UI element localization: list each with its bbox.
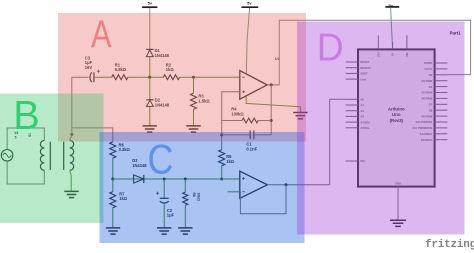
ground transformer secondary xyxy=(64,191,78,197)
label D3 1N4148 xyxy=(132,158,147,168)
resistor R7 1k xyxy=(110,179,116,228)
label C1 0.1nF xyxy=(246,142,257,152)
label U1 xyxy=(275,56,281,61)
node transformer/C3 junction xyxy=(70,133,73,136)
region overlay B xyxy=(0,92,104,223)
node R3 tap xyxy=(192,76,195,79)
ground C2 xyxy=(157,228,171,234)
resistor R1 6.8k xyxy=(112,75,128,80)
wire C3 down to transformer xyxy=(72,77,89,134)
ground Arduino xyxy=(390,220,406,226)
pin N/C xyxy=(346,159,365,163)
pin D1/TX xyxy=(425,67,448,71)
pin A1 xyxy=(346,103,365,107)
svg-text:fritzing: fritzing xyxy=(425,239,474,251)
label R2 1k xyxy=(166,63,175,73)
pin A4/SDA xyxy=(346,120,371,124)
label V4 5 xyxy=(14,131,18,140)
diode D2 1N4148 xyxy=(146,77,153,106)
ground D2 xyxy=(143,126,157,132)
label R5 1k xyxy=(226,154,235,164)
pin D4 xyxy=(429,85,448,89)
node feedback left xyxy=(220,133,223,136)
wire primary loop bottom xyxy=(7,161,44,184)
pin GND xyxy=(395,181,401,220)
wire U1 non-inverting / feedback left xyxy=(222,92,240,150)
wire U1 output to Part1 xyxy=(279,20,470,85)
pin D9 PWM xyxy=(421,114,447,118)
ground R7 xyxy=(106,228,120,234)
node U1 output xyxy=(270,83,273,86)
pin D10 PWM/SS xyxy=(416,120,448,124)
pin ioref xyxy=(346,77,367,81)
wire primary loop top xyxy=(7,128,44,150)
node R6 row xyxy=(111,178,114,181)
wire U1 V- to ground xyxy=(246,96,300,113)
svg-text:C: C xyxy=(148,135,174,182)
node R8 row xyxy=(184,178,187,181)
pin 5V xyxy=(391,42,395,56)
wire secondary to ground xyxy=(70,170,71,191)
Arduino U3 body xyxy=(358,49,435,186)
pin A2 xyxy=(346,109,365,113)
diode D1 1N4148 xyxy=(146,49,153,56)
wire R3 to ground xyxy=(193,109,195,126)
fritzing logo xyxy=(425,239,474,251)
wire D2 to ground xyxy=(149,107,151,126)
pin RESET2 xyxy=(346,66,372,70)
region overlay C xyxy=(100,132,305,243)
label D1 1N4148 xyxy=(155,48,170,58)
wire to R6 xyxy=(72,128,113,142)
resistor R5 1k xyxy=(219,150,225,166)
wire U1 output xyxy=(267,84,279,86)
pin VIN xyxy=(405,35,409,57)
capacitor C1 0.1nF xyxy=(222,130,272,139)
label R4 100k xyxy=(231,107,244,117)
op-amp U1 xyxy=(240,71,267,100)
voltage source V4 xyxy=(1,150,13,162)
label R3 1.5k xyxy=(198,94,210,104)
wire secondary top xyxy=(70,134,72,140)
pin D11 PWM/MOSI xyxy=(412,126,447,130)
power +5V supply 3 xyxy=(385,3,399,49)
ground R3 xyxy=(186,126,200,132)
svg-text:D: D xyxy=(317,26,344,69)
pin RESET xyxy=(346,60,370,64)
pin D7 xyxy=(429,103,448,107)
wire U2 output to A0 xyxy=(330,99,346,185)
diode D3 1N4148 xyxy=(134,175,144,183)
label Arduino Uno (Rev3) xyxy=(388,107,405,123)
wire D1 to node xyxy=(149,57,151,77)
label R1 6.8k xyxy=(115,63,127,73)
pin 3V3 xyxy=(376,35,380,57)
svg-text:A: A xyxy=(91,13,112,56)
wire U2 inverting stub xyxy=(228,191,240,193)
wire R5 to input row xyxy=(221,166,223,179)
label R7 1k xyxy=(119,191,128,201)
wire R1 to R2 xyxy=(128,76,163,78)
pin A3 xyxy=(346,115,365,119)
op-amp U2 xyxy=(240,171,268,198)
node feedback right xyxy=(270,119,273,122)
label R6 3.3k xyxy=(119,142,131,152)
pin D12/MISO xyxy=(420,132,448,136)
node U2 output xyxy=(285,183,288,186)
label S1 xyxy=(28,133,32,137)
pin AREF xyxy=(346,72,368,76)
label D2 1N4148 xyxy=(155,97,170,107)
pin D5 PWM xyxy=(421,91,447,95)
pin D8 xyxy=(429,108,448,112)
region overlay D xyxy=(297,22,465,235)
node C2 row xyxy=(163,178,166,181)
pin D6 PWM xyxy=(421,97,447,101)
power +5V supply 1 xyxy=(142,1,157,50)
resistor R6 3.3k xyxy=(110,142,116,179)
wire input row xyxy=(113,178,240,180)
ground R8 xyxy=(178,228,192,234)
pin D13/SCK xyxy=(421,138,448,142)
svg-text:B: B xyxy=(13,92,40,138)
capacitor C3 xyxy=(90,70,100,83)
pin D2 xyxy=(429,73,448,77)
svg-text:5v: 5v xyxy=(247,1,252,6)
ground U1 xyxy=(293,113,307,119)
label C3 1uF 16V xyxy=(85,56,93,70)
pin D0/RX xyxy=(424,61,447,65)
pin A0 xyxy=(346,98,365,102)
pin A5/SCL xyxy=(346,126,371,130)
pin D3 PWM xyxy=(421,79,447,83)
node R5 row xyxy=(220,178,223,181)
region overlay A xyxy=(58,13,306,142)
wire U2 feedback xyxy=(240,185,286,214)
resistor R4 100k xyxy=(222,118,272,123)
node D1 D2 junction xyxy=(148,76,151,79)
transformer T1 xyxy=(40,141,73,171)
part Part1 label xyxy=(450,31,462,36)
wire U1 feedback right xyxy=(270,85,272,135)
resistor R2 1k xyxy=(163,75,179,80)
wire R2 to op-amp xyxy=(180,76,240,78)
resistor R3 1.5k xyxy=(191,77,197,109)
wire U2 output xyxy=(267,184,329,186)
label R8 10k xyxy=(192,193,200,202)
wire C3 to R1 xyxy=(94,76,112,78)
capacitor C2 1uF xyxy=(156,179,169,228)
resistor R8 xyxy=(183,179,188,228)
label C2 1uF xyxy=(167,208,175,218)
svg-text:5v: 5v xyxy=(148,1,153,6)
power +5V supply 2 xyxy=(241,1,258,74)
